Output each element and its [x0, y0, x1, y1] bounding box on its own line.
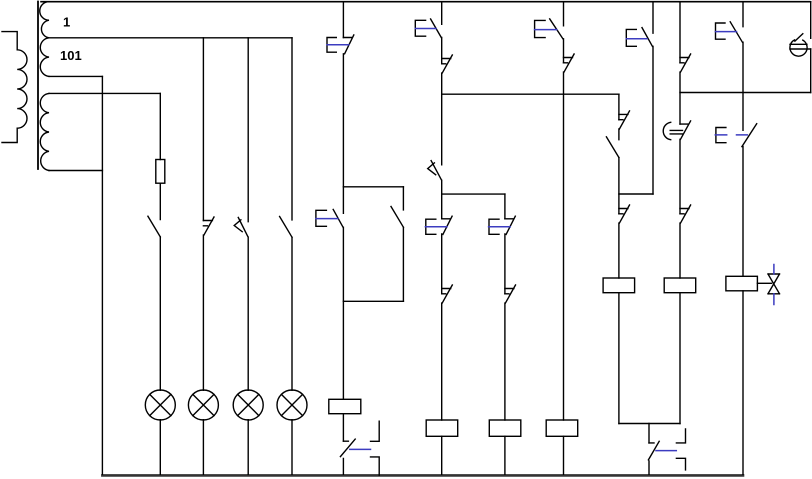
- svg-text:101: 101: [60, 48, 82, 63]
- svg-text:1: 1: [63, 15, 70, 30]
